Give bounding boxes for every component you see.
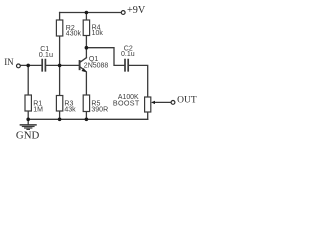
resistor R1 label 1M — [33, 100, 43, 113]
wire bottom rail — [28, 118, 148, 120]
junction dot IN node — [26, 64, 30, 68]
terminal circle OUT — [171, 101, 175, 105]
svg-text:BOOST: BOOST — [113, 99, 140, 108]
wire top rail — [60, 12, 121, 14]
wire IN to C1 — [21, 64, 42, 66]
svg-text:43k: 43k — [64, 106, 76, 113]
wire C1 to Q1 base — [46, 64, 79, 66]
svg-text:0.1u: 0.1u — [39, 50, 53, 59]
junction dot ground node — [26, 118, 30, 122]
potentiometer label A100K BOOST — [113, 94, 140, 108]
wire base column R2-bottom to R3-top — [59, 36, 61, 96]
svg-text:GND: GND — [16, 130, 40, 142]
svg-text:2N5088: 2N5088 — [84, 63, 109, 70]
svg-text:1M: 1M — [33, 106, 43, 113]
wire R3 bottom lead — [59, 111, 61, 119]
wire R1 top lead — [27, 65, 29, 95]
resistor R4 body — [83, 20, 89, 36]
transistor Q1 label — [84, 56, 109, 70]
svg-text:430k: 430k — [66, 31, 82, 38]
wire pot bottom lead — [147, 112, 149, 119]
svg-text:390R: 390R — [91, 106, 108, 113]
potentiometer A100K BOOST body — [145, 97, 151, 112]
resistor R2 body — [56, 20, 62, 36]
resistor R4 label 10k — [92, 24, 104, 37]
resistor R3 body — [56, 96, 62, 112]
wire GND stub — [27, 119, 29, 124]
capacitor C2 label 0.1u — [121, 46, 135, 58]
svg-text:+9V: +9V — [127, 5, 146, 16]
wire emitter to R5 — [85, 72, 87, 95]
svg-text:OUT: OUT — [177, 95, 197, 105]
junction dot collector node — [85, 46, 89, 50]
svg-text:IN: IN — [4, 57, 14, 67]
resistor R5 body — [83, 95, 89, 112]
wire collector node to C2 — [86, 48, 124, 66]
capacitor C2 — [125, 60, 128, 71]
junction dot base node — [58, 64, 62, 68]
resistor R2 label 430k — [66, 25, 82, 38]
ground — [20, 125, 36, 129]
junction dot R5 bottom — [85, 118, 89, 122]
transistor Q1 2N5088 — [80, 48, 87, 73]
capacitor C1 label 0.1u — [39, 46, 53, 59]
wire pot wiper to OUT — [154, 101, 171, 103]
terminal circle +9V — [121, 11, 125, 15]
svg-text:0.1u: 0.1u — [121, 51, 135, 58]
wire R5 bottom lead — [85, 112, 87, 120]
svg-text:10k: 10k — [92, 30, 104, 37]
potentiometer wiper arrow — [151, 101, 155, 104]
wire R4 bottom to collector node — [85, 36, 87, 48]
resistor R5 label 390R — [91, 100, 108, 113]
terminal circle IN — [17, 64, 21, 68]
junction dot top rail — [85, 11, 89, 15]
wire R2 top lead — [59, 13, 61, 21]
wire R4 top lead — [85, 13, 87, 21]
resistor R1 body — [25, 95, 31, 111]
resistor R3 label 43k — [64, 100, 76, 113]
wire C2 to pot top — [129, 65, 148, 97]
wire R1 bottom lead — [27, 111, 29, 119]
capacitor C1 — [42, 60, 45, 71]
junction dot R3 bottom — [58, 118, 62, 122]
